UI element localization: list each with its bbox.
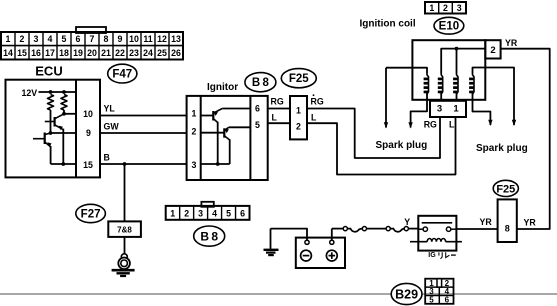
relay contact a xyxy=(418,227,427,231)
svg-text:12: 12 xyxy=(157,34,167,44)
svg-text:4: 4 xyxy=(212,208,217,218)
wire primary feed rail xyxy=(441,49,485,74)
svg-text:3: 3 xyxy=(198,208,203,218)
arrow spark 2 xyxy=(408,122,412,128)
wire Q4 emitter to pin5 xyxy=(229,126,251,128)
coil connector 3-1 xyxy=(430,101,466,117)
svg-text:B29: B29 xyxy=(395,287,418,301)
transistor Q1 xyxy=(45,114,64,131)
resistor R1 xyxy=(48,95,54,111)
svg-text:13: 13 xyxy=(171,34,181,44)
wire GW xyxy=(100,132,187,134)
svg-text:RG: RG xyxy=(311,97,324,107)
wire S2 top to spark xyxy=(473,68,515,126)
transistor Q2 xyxy=(33,133,52,148)
connector F47 26-pin xyxy=(1,27,183,60)
wire YR from coil pin2 xyxy=(501,49,550,229)
winding secondary S1 xyxy=(427,74,429,95)
wire to ground lug xyxy=(124,237,126,254)
svg-text:1: 1 xyxy=(6,34,11,44)
winding primary P1 xyxy=(441,74,443,95)
wire R1 down xyxy=(50,110,52,133)
relay coil xyxy=(410,239,462,242)
winding secondary S2 xyxy=(473,74,475,95)
svg-text:1: 1 xyxy=(192,109,197,119)
svg-text:6: 6 xyxy=(240,208,245,218)
svg-text:23: 23 xyxy=(129,48,139,58)
connector B29 grid xyxy=(425,279,453,305)
svg-text:7&8: 7&8 xyxy=(117,226,132,235)
wire to relay xyxy=(408,228,418,230)
svg-text:F25: F25 xyxy=(496,183,515,195)
12V rail wire xyxy=(39,91,77,93)
wire pin9 xyxy=(51,132,77,134)
battery box xyxy=(296,238,345,268)
wire relay to F25 xyxy=(456,228,497,230)
fuse terminal c4 xyxy=(404,227,408,231)
wire base Q4 xyxy=(201,132,225,134)
svg-text:5: 5 xyxy=(226,208,231,218)
svg-text:Ignitor: Ignitor xyxy=(207,82,238,93)
svg-text:9: 9 xyxy=(86,128,91,138)
svg-text:B 8: B 8 xyxy=(252,77,270,89)
svg-text:18: 18 xyxy=(59,48,69,58)
svg-text:9: 9 xyxy=(118,34,123,44)
wire Q3 collector down xyxy=(217,122,219,164)
svg-text:Ignition coil: Ignition coil xyxy=(360,19,416,30)
terminal plus xyxy=(330,240,334,244)
svg-text:L: L xyxy=(449,119,455,129)
svg-text:6: 6 xyxy=(76,34,81,44)
wire Q1 emitter down xyxy=(62,129,64,164)
bottom rule xyxy=(0,293,557,295)
svg-text:ECU: ECU xyxy=(35,64,62,79)
svg-text:10: 10 xyxy=(129,34,139,44)
battery plus symbol xyxy=(326,250,337,261)
svg-text:E10: E10 xyxy=(439,21,459,33)
wire pin15 xyxy=(51,163,76,165)
svg-text:Y: Y xyxy=(404,217,410,227)
svg-text:8: 8 xyxy=(104,34,109,44)
svg-text:10: 10 xyxy=(83,109,93,119)
wire S1 bottom to spark xyxy=(411,93,427,128)
wire L xyxy=(268,122,290,124)
svg-text:YR: YR xyxy=(480,217,493,227)
wire S2 bottom to spark xyxy=(473,93,491,125)
ground lug xyxy=(112,254,135,276)
wire P1 to pin3 xyxy=(440,93,442,101)
wire S1 top to spark xyxy=(386,68,427,74)
svg-text:14: 14 xyxy=(3,48,13,58)
svg-text:3: 3 xyxy=(34,34,39,44)
fusible link 2 xyxy=(390,229,404,232)
svg-text:2: 2 xyxy=(184,208,189,218)
node 12V-R2 xyxy=(62,90,66,94)
svg-text:19: 19 xyxy=(73,48,83,58)
battery minus symbol xyxy=(301,250,312,261)
svg-text:5: 5 xyxy=(429,296,434,305)
svg-text:6: 6 xyxy=(255,103,260,113)
svg-text:L: L xyxy=(311,112,317,122)
svg-text:1: 1 xyxy=(170,208,175,218)
svg-text:2: 2 xyxy=(296,122,301,132)
transistor Q4 xyxy=(224,127,230,140)
wire battery plus up xyxy=(331,229,333,241)
wire ground to battery minus xyxy=(271,229,308,241)
relay contact b xyxy=(446,227,456,231)
wire Q2 emitter down xyxy=(50,146,52,164)
wire Q4 collector down xyxy=(229,139,231,164)
arrow spark 1 xyxy=(385,68,387,128)
connector label E10 xyxy=(434,17,464,34)
fuse terminal c2 xyxy=(362,227,366,231)
svg-text:15: 15 xyxy=(83,160,93,170)
transistor Q3 xyxy=(213,109,222,123)
svg-text:YL: YL xyxy=(104,104,116,114)
connector F27 7and8 box xyxy=(108,221,141,237)
ECU box xyxy=(6,80,101,178)
ignition coil case xyxy=(412,40,485,100)
connector label F25 xyxy=(281,69,316,88)
svg-text:RG: RG xyxy=(271,97,284,107)
connector F25 pin8 box xyxy=(498,199,517,242)
wire B to ground connector xyxy=(124,164,126,221)
svg-text:2: 2 xyxy=(443,3,448,13)
winding primary P2 xyxy=(457,74,459,95)
svg-text:B: B xyxy=(104,152,110,162)
svg-text:25: 25 xyxy=(157,48,167,58)
connector B8 6-pin xyxy=(166,202,250,220)
node rail-C xyxy=(455,47,459,51)
svg-text:GW: GW xyxy=(104,122,120,132)
Ignitor box xyxy=(187,96,268,180)
relay label IG katakana xyxy=(428,252,456,259)
svg-text:22: 22 xyxy=(115,48,125,58)
svg-text:20: 20 xyxy=(87,48,97,58)
svg-text:24: 24 xyxy=(143,48,153,58)
node pin10 xyxy=(62,112,66,116)
wire R2 to pin10 node xyxy=(63,110,65,114)
svg-text:F47: F47 xyxy=(112,69,132,81)
resistor R2 xyxy=(61,95,67,111)
svg-text:F27: F27 xyxy=(81,209,101,221)
connector label F25 xyxy=(493,180,518,196)
label RG dot xyxy=(313,94,315,96)
connector label F27 xyxy=(76,204,106,222)
fuse terminal c1 xyxy=(343,227,347,231)
wire base Q3 xyxy=(201,115,214,117)
connector pin 2 box xyxy=(485,40,500,58)
wire RG xyxy=(268,108,290,110)
svg-text:5: 5 xyxy=(62,34,67,44)
svg-text:YR: YR xyxy=(505,38,518,48)
svg-text:YR: YR xyxy=(524,217,537,227)
fuse terminal c3 xyxy=(386,227,390,231)
svg-text:7: 7 xyxy=(90,34,95,44)
svg-text:1: 1 xyxy=(429,3,434,13)
wire Q3 emitter to pin6 xyxy=(222,108,250,110)
svg-text:RG: RG xyxy=(424,119,437,129)
svg-text:12V: 12V xyxy=(22,88,38,98)
svg-text:IG: IG xyxy=(428,252,436,259)
terminal minus xyxy=(305,240,309,244)
svg-text:Spark plug: Spark plug xyxy=(376,140,428,151)
wire B xyxy=(100,163,187,165)
connector label B29 xyxy=(391,283,422,304)
connector label B8 xyxy=(194,226,225,246)
svg-text:16: 16 xyxy=(31,48,41,58)
connector label B8 xyxy=(245,73,276,92)
relay contact bar xyxy=(422,222,453,224)
fusible link 1 xyxy=(347,229,362,232)
svg-text:B 8: B 8 xyxy=(200,229,218,243)
connector label F47 xyxy=(108,64,137,83)
svg-text:2: 2 xyxy=(192,127,197,137)
connector E10 3-pin xyxy=(425,2,466,14)
svg-text:8: 8 xyxy=(505,224,510,234)
svg-text:L: L xyxy=(272,112,278,122)
svg-text:2: 2 xyxy=(490,45,495,56)
wire YL xyxy=(100,115,187,117)
node emitter join xyxy=(61,162,65,166)
svg-text:6: 6 xyxy=(445,296,450,305)
arrow spark 3 xyxy=(488,120,492,126)
svg-text:1: 1 xyxy=(453,104,459,115)
node pin9 xyxy=(49,131,53,135)
svg-text:3: 3 xyxy=(457,3,462,13)
wire L to coil xyxy=(307,117,456,175)
wire RG to coil xyxy=(307,109,440,159)
wire pin10 xyxy=(64,113,76,115)
svg-text:1: 1 xyxy=(296,105,301,115)
relay IG box xyxy=(418,216,456,251)
arrow spark 4 xyxy=(512,120,516,126)
svg-text:15: 15 xyxy=(17,48,27,58)
svg-text:3: 3 xyxy=(192,160,197,170)
svg-text:F25: F25 xyxy=(289,73,309,85)
node B junction xyxy=(123,162,127,166)
wire C stem xyxy=(456,49,458,74)
svg-text:11: 11 xyxy=(143,34,152,44)
wire P2 to pin1 xyxy=(456,93,458,101)
wire to fuse 1 xyxy=(332,228,344,230)
connector F25 2-pin xyxy=(290,96,307,139)
node 12V-R1 xyxy=(49,90,53,94)
node ignitor emitter join xyxy=(216,162,220,166)
wire pin3 internal xyxy=(201,163,230,165)
svg-text:2: 2 xyxy=(20,34,25,44)
svg-text:3: 3 xyxy=(437,104,442,115)
wire between fuses xyxy=(367,228,387,230)
svg-text:Spark plug: Spark plug xyxy=(476,143,528,154)
svg-text:5: 5 xyxy=(255,120,260,130)
ground battery xyxy=(264,229,279,256)
svg-text:26: 26 xyxy=(171,48,181,58)
svg-text:4: 4 xyxy=(48,34,53,44)
svg-text:17: 17 xyxy=(45,48,55,58)
svg-text:21: 21 xyxy=(101,48,111,58)
